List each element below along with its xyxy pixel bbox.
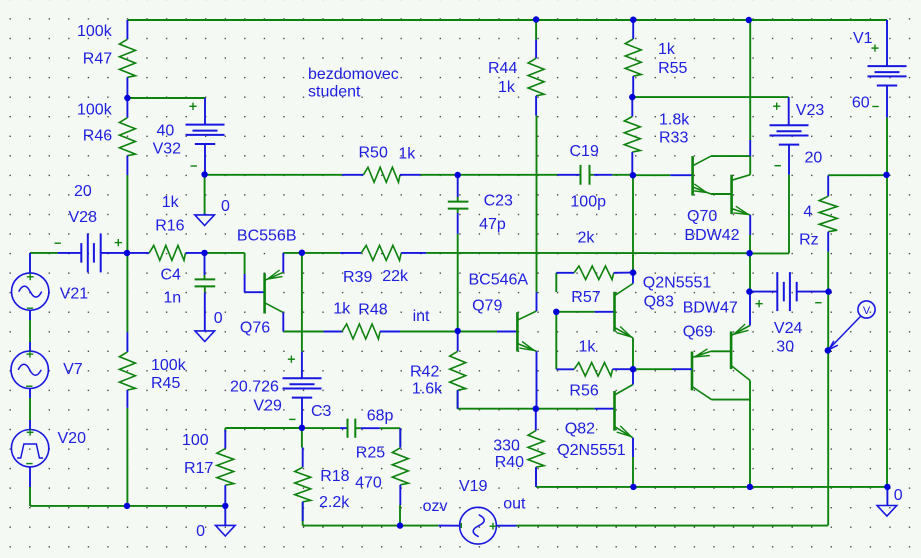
svg-text:V: V: [863, 305, 871, 317]
wire R17 drop x=225.3: [224, 428, 226, 432]
svg-text:student: student: [308, 84, 361, 101]
junction (828.5,291.6): [825, 288, 831, 294]
wire C3 left stub: [302, 427, 340, 429]
resistor R50: [342, 174, 363, 176]
wire bottom bus y=486.9: [536, 486, 887, 488]
svg-text:0: 0: [221, 198, 230, 215]
wire Q69 mid link: [711, 350, 731, 352]
wire R25 bottom: [399, 505, 401, 526]
svg-text:22k: 22k: [382, 268, 409, 285]
wire x=633 column (R33 node down to R57 node): [632, 175, 634, 272]
svg-text:R18: R18: [320, 468, 349, 485]
junction (633,369.2): [630, 366, 636, 372]
transistor Q76 BC556B: [244, 274, 246, 292]
svg-text:R46: R46: [83, 128, 112, 145]
svg-text:R48: R48: [358, 302, 387, 319]
svg-text:1k: 1k: [398, 146, 416, 163]
resistor R16: [130, 252, 150, 254]
svg-text:ozv: ozv: [423, 498, 448, 515]
wire Q83 emitter column: [632, 338, 634, 369]
svg-text:Q83: Q83: [644, 293, 674, 310]
svg-text:V28: V28: [69, 209, 98, 226]
junction (301.9,252.7): [299, 250, 305, 256]
svg-text:V1: V1: [853, 30, 873, 47]
resistor R45: [126, 332, 128, 352]
resistor R46: [126, 98, 128, 118]
junction (749.4,291.6): [746, 288, 752, 294]
resistor R44: [535, 40, 537, 59]
voltage probe V: [858, 301, 875, 318]
svg-text:R42: R42: [410, 363, 439, 380]
svg-text:30: 30: [776, 338, 794, 355]
svg-text:1k: 1k: [162, 194, 180, 211]
wire x=127 column: [126, 175, 128, 253]
svg-text:V29: V29: [253, 398, 282, 415]
svg-text:60: 60: [852, 95, 870, 112]
svg-text:20: 20: [74, 183, 92, 200]
svg-text:R39: R39: [343, 269, 372, 286]
svg-text:BC556B: BC556B: [237, 228, 297, 245]
wire emitter bus row y=253: [30, 252, 58, 254]
capacitor C4: [204, 253, 206, 275]
svg-text:C19: C19: [570, 143, 599, 160]
wire C3 right link to R25: [380, 427, 401, 429]
svg-text:Q70: Q70: [687, 208, 717, 225]
junction (749.9,486.9): [747, 484, 753, 490]
junction (633,272.6): [630, 269, 636, 275]
transistor Q79 BC546A: [497, 331, 517, 333]
junction (535.8,408.7): [533, 406, 539, 412]
capacitor C19: [557, 174, 580, 176]
svg-text:Q82: Q82: [565, 421, 595, 438]
ground 0 bottom right: [886, 487, 888, 506]
resistor R57: [556, 272, 574, 274]
svg-text:R47: R47: [83, 50, 112, 67]
junction (127,505.9): [124, 503, 130, 509]
wire Q76 base drop x=244.6: [244, 253, 246, 274]
svg-text:1.6k: 1.6k: [412, 380, 443, 397]
junction (887.4,486.9): [884, 484, 890, 490]
svg-text:R57: R57: [571, 289, 600, 306]
junction (749.6,253.2): [746, 250, 752, 256]
svg-text:R33: R33: [659, 129, 688, 146]
svg-text:2k: 2k: [578, 230, 596, 247]
junction (204.5,252.9): [201, 250, 207, 256]
wire R18 bottom corner: [302, 502, 304, 526]
svg-text:R55: R55: [658, 60, 687, 77]
junction (827.8,350.5): [825, 347, 831, 353]
svg-text:BDW42: BDW42: [684, 227, 739, 244]
wire Q83 base row: [556, 311, 594, 313]
resistor R47: [126, 20, 128, 39]
svg-text:Q2N5551: Q2N5551: [643, 274, 712, 291]
svg-text:100k: 100k: [77, 23, 113, 40]
svg-text:V20: V20: [58, 430, 87, 447]
svg-text:Q76: Q76: [240, 319, 270, 336]
resistor R55: [632, 20, 634, 39]
junction (536.1,19.5): [533, 16, 539, 22]
wire y=97 left (R47/R46 node to V32): [127, 97, 205, 99]
svg-text:0: 0: [894, 487, 903, 504]
svg-text:100: 100: [182, 432, 209, 449]
wire R57 left drop x=556.3: [555, 273, 557, 292]
resistor R40: [535, 409, 537, 431]
svg-text:Q2N5551: Q2N5551: [557, 442, 626, 459]
svg-text:V7: V7: [63, 361, 83, 378]
svg-text:4: 4: [803, 204, 812, 221]
svg-text:BDW47: BDW47: [683, 300, 738, 317]
svg-text:R16: R16: [155, 217, 184, 234]
wire Q70 collector link: [711, 155, 750, 157]
svg-text:0: 0: [214, 310, 223, 327]
svg-text:1k: 1k: [658, 41, 676, 58]
wire R17 top row y=428: [225, 427, 302, 429]
wire V29 column x=302: [301, 253, 303, 352]
svg-text:V32: V32: [153, 141, 182, 158]
svg-text:470: 470: [355, 475, 382, 492]
wire top bus y=20: [127, 19, 887, 21]
svg-text:40: 40: [157, 123, 175, 140]
junction (632.3,97.1): [629, 94, 635, 100]
wire C23 column x=458: [457, 234, 459, 331]
svg-text:68p: 68p: [367, 408, 394, 425]
svg-text:1k: 1k: [579, 338, 597, 355]
wire Q82 emitter column: [632, 457, 634, 487]
svg-text:1.8k: 1.8k: [659, 112, 690, 129]
battery V23: [788, 97, 790, 125]
wire Q69 base row y=369.4: [633, 368, 672, 370]
svg-text:1n: 1n: [163, 289, 181, 306]
resistor R17: [224, 430, 226, 449]
svg-text:1k: 1k: [333, 300, 351, 317]
wire Q69 base2 link: [712, 399, 751, 401]
svg-text:20: 20: [805, 149, 823, 166]
svg-text:R44: R44: [488, 60, 517, 77]
svg-text:R40: R40: [495, 454, 524, 471]
svg-text:V23: V23: [796, 102, 825, 119]
svg-text:0: 0: [196, 523, 205, 540]
ground 0 at C4: [195, 331, 215, 342]
ground 0 at V32: [204, 214, 206, 215]
junction (127,253): [124, 250, 130, 256]
wire V20 bottom drop: [29, 467, 31, 487]
resistor R56: [556, 368, 574, 370]
wire C3 inner stubs: [355, 427, 360, 429]
resistor R42: [457, 331, 459, 351]
svg-text:R45: R45: [151, 375, 180, 392]
svg-text:100k: 100k: [77, 101, 113, 118]
wire Q69 collector bottom column x=750: [749, 380, 751, 487]
wire Q70 base2 link: [711, 193, 732, 195]
svg-text:R25: R25: [356, 445, 385, 462]
junction (632.9,175.2): [630, 172, 636, 178]
svg-text:int: int: [413, 308, 430, 325]
source V20: [11, 430, 48, 467]
junction (457.7,175): [455, 172, 461, 178]
svg-text:R17: R17: [184, 460, 213, 477]
svg-text:Rz: Rz: [799, 232, 819, 249]
resistor R48: [324, 331, 342, 333]
junction (633.2,19.7): [630, 17, 636, 23]
svg-text:V19: V19: [459, 478, 488, 495]
wire R56 left riser x=556.3: [555, 330, 557, 369]
wire R42 bottom corner x=457.5: [457, 390, 459, 409]
source V7: [11, 351, 48, 388]
battery V1: [886, 20, 888, 66]
svg-text:2.2k: 2.2k: [319, 494, 350, 511]
battery V29: [301, 352, 303, 379]
transistor Q70 BDW42 darlington: [670, 174, 692, 176]
wire bottom out row y=525.4: [517, 525, 829, 527]
capacitor C23: [457, 175, 459, 197]
svg-text:V24: V24: [774, 320, 803, 337]
svg-text:20.726: 20.726: [230, 379, 279, 396]
junction (127.4,98): [124, 95, 130, 101]
svg-text:1k: 1k: [498, 79, 516, 96]
wire source stack links x=30: [29, 310, 31, 320]
battery V32: [204, 98, 206, 125]
wire Rz bottom column x=828: [827, 252, 829, 351]
transistor Q69 BDW47 darlington: [749, 292, 751, 326]
resistor R18: [302, 448, 304, 468]
svg-text:100p: 100p: [570, 193, 606, 210]
svg-text:330: 330: [493, 437, 520, 454]
svg-text:R56: R56: [569, 383, 598, 400]
source V21: [12, 273, 49, 310]
svg-text:R50: R50: [359, 145, 388, 162]
junction (633.4,486.9): [630, 484, 636, 490]
wire row y=175 main: [205, 174, 343, 176]
wire R44/Q79 collector column x=536.5: [535, 20, 537, 40]
wire bottom left bus y=505.9: [30, 505, 225, 507]
junction (556.3,311.8): [553, 309, 559, 315]
junction (748.8,20): [746, 17, 752, 23]
junction (225.3,505.9): [222, 503, 228, 509]
resistor R25: [399, 428, 401, 448]
wire V23 bottom column x=789: [788, 175, 790, 254]
capacitor C3: [340, 427, 347, 429]
wire R40 bottom corner: [535, 467, 537, 487]
resistor R39: [340, 252, 361, 254]
source V19: [460, 507, 497, 544]
svg-text:bezdomovec: bezdomovec: [308, 66, 399, 83]
svg-text:C4: C4: [161, 266, 182, 283]
junction (301.9,427.8): [299, 425, 305, 431]
wire V32 ground stem: [204, 175, 206, 214]
junction (204.6,174.5): [201, 171, 207, 177]
svg-text:47p: 47p: [479, 216, 506, 233]
svg-text:100k: 100k: [151, 357, 187, 374]
wire Rz top row y=175: [828, 174, 886, 176]
svg-text:Q69: Q69: [683, 323, 713, 340]
junction (400,525.6): [397, 522, 403, 528]
wire y=97 right (R55/R33 node to V23): [632, 96, 788, 98]
svg-text:Q79: Q79: [472, 298, 502, 315]
ground 0 at R17: [224, 506, 226, 526]
wire x=750 mid column: [749, 235, 751, 253]
resistor Rz: [827, 175, 829, 196]
svg-text:C23: C23: [484, 193, 513, 210]
battery V28: [58, 252, 82, 254]
junction (886.5,174.8): [883, 172, 889, 178]
wire row y=408.7 (R42 to Q82 base): [458, 408, 536, 410]
transistor Q83 Q2N5551: [595, 311, 615, 313]
resistor R33: [631, 97, 633, 116]
svg-text:C3: C3: [311, 403, 332, 420]
wire R18 column top: [301, 428, 303, 448]
transistor Q82 Q2N5551: [595, 408, 615, 410]
wire V1 column x=887: [886, 20, 888, 24]
wire int row y=332: [283, 331, 323, 333]
battery V24: [749, 291, 777, 293]
svg-text:out: out: [503, 496, 526, 513]
junction (457.7,331): [455, 328, 461, 334]
svg-text:V21: V21: [60, 285, 89, 302]
wire right column x=750 upper: [749, 20, 751, 140]
svg-text:BC546A: BC546A: [469, 271, 529, 288]
